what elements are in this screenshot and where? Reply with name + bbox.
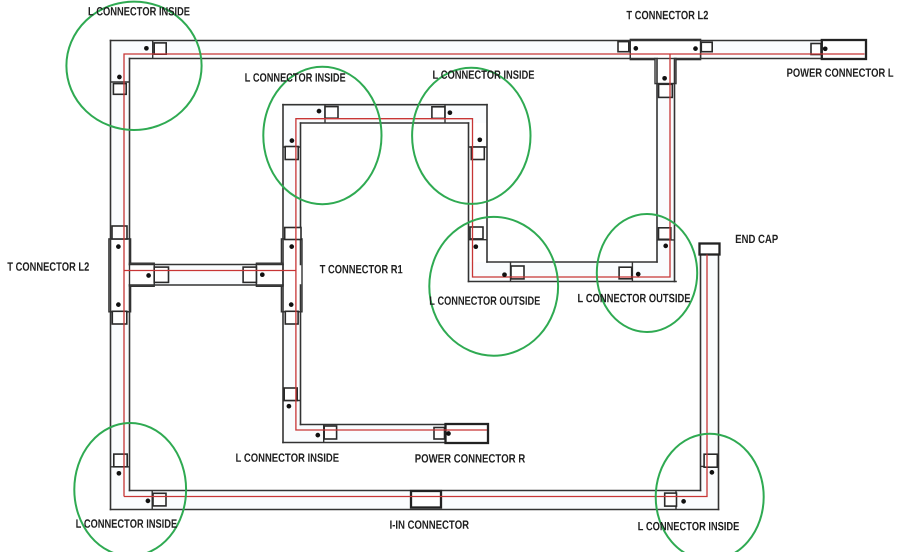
I-IN connector box — [411, 491, 441, 508]
label L CONNECTOR INSIDE inner top-left — [245, 73, 345, 82]
power connector L box — [822, 40, 866, 59]
L connector inside C1 joints — [152, 41, 154, 59]
wire bottom track outer rail — [111, 509, 719, 511]
L connector inside C3 joints — [444, 105, 446, 123]
red circuit lines — [124, 54, 865, 497]
label END CAP — [736, 235, 778, 244]
clip C5 horizontal arm — [619, 267, 632, 279]
clip C2 left arm — [285, 147, 298, 160]
dot C8a — [710, 470, 715, 475]
L connector inside C2 joints — [324, 105, 326, 123]
node circle F bottom-left — [74, 423, 186, 552]
wire rung bottom rail — [130, 284, 284, 286]
dot C6b — [315, 433, 320, 438]
label L CONNECTOR INSIDE top-left — [89, 7, 190, 16]
clip T-left bottom — [112, 311, 127, 324]
dot C8b — [681, 499, 686, 504]
label T CONNECTOR R1 — [320, 265, 403, 274]
wire T stem east rail — [674, 59, 676, 282]
clip power connector R — [434, 428, 445, 440]
clip power connector L — [811, 44, 821, 55]
clip T-top stem — [659, 84, 673, 97]
wire inner-left vertical west rail — [282, 105, 284, 443]
T connector right joints — [283, 238, 301, 240]
dot C1b — [117, 75, 122, 80]
label T CONNECTOR L2 left — [7, 262, 89, 271]
track interior tint — [111, 41, 867, 510]
dot C1a — [144, 46, 149, 51]
dot T-left c — [146, 273, 151, 278]
thick boxes — [411, 40, 866, 508]
wire end-cap track east rail — [718, 255, 720, 510]
wire inner-bottom track top rail — [301, 424, 446, 426]
clip C7 horizontal arm — [153, 493, 166, 506]
node circle B inner top-left — [263, 67, 381, 204]
L connector outside C5 joints — [657, 239, 675, 241]
T connector L2 left body — [109, 239, 131, 312]
dot C2a — [317, 109, 322, 114]
dot T-top w — [633, 46, 638, 51]
dot T-top e — [693, 46, 698, 51]
wire inner-bottom track bottom rail — [283, 442, 446, 444]
wire red top+right run — [124, 54, 865, 497]
L connector outside C4 joints — [469, 239, 488, 241]
wire red bottom run — [124, 255, 707, 497]
label I-IN CONNECTOR — [390, 520, 469, 529]
clip T-right top — [285, 228, 301, 240]
wire end-cap track west rail — [700, 255, 702, 491]
clip C6 horizontal arm — [324, 426, 336, 439]
wire stem-horizontal top rail — [487, 261, 657, 263]
label L CONNECTOR INSIDE bottom-right — [638, 522, 739, 531]
node circle G bottom-right — [656, 434, 764, 552]
power connector R box — [446, 424, 489, 443]
wire top track outer rail — [111, 40, 822, 42]
clip C2 top arm — [325, 107, 338, 119]
T connector bodies — [109, 39, 701, 311]
wire left track outer rail — [110, 41, 112, 510]
green highlight circles — [66, 2, 763, 552]
clip T-left top — [112, 226, 127, 239]
label L CONNECTOR INSIDE inner top-right — [433, 70, 534, 79]
dot C3a — [448, 110, 453, 115]
dot C5a — [663, 244, 668, 249]
wire inner-top track bottom rail — [301, 122, 469, 124]
T connector L2 top body — [630, 39, 700, 59]
clip T-top west — [618, 42, 629, 52]
T connector left joints — [111, 238, 130, 240]
wire left track inner rail (gap at rung) — [129, 59, 131, 265]
wire red rung — [124, 270, 296, 272]
L connector inside C6 joints — [283, 400, 301, 402]
dot T-left b — [116, 302, 121, 307]
dot T-right a — [289, 244, 294, 249]
clip T-right branch — [243, 267, 256, 282]
clip C3 right arm — [471, 147, 484, 160]
dot T-right b — [289, 302, 294, 307]
T connector R1 body — [281, 239, 302, 312]
label L CONNECTOR INSIDE inner bottom — [236, 453, 339, 462]
clip C4 vertical arm — [470, 227, 483, 239]
clips — [112, 42, 821, 507]
wire stem-horizontal bottom rail — [469, 281, 677, 283]
wire inner-left vertical east rail (gap at rung) — [300, 123, 302, 265]
dot C3b — [477, 137, 482, 142]
dot power L — [823, 46, 828, 51]
wire bottom track inner rail — [130, 490, 701, 492]
clip C1 left arm — [113, 84, 126, 95]
node circle E right outside corner — [597, 214, 697, 332]
dot T-top s — [662, 76, 667, 81]
wire rung top rail — [130, 264, 284, 266]
label L CONNECTOR INSIDE bottom-left — [76, 519, 177, 528]
clip T-left branch — [154, 267, 168, 282]
label T CONNECTOR L2 top — [627, 11, 709, 19]
clip C7 vertical arm — [114, 454, 127, 467]
clip C5 vertical arm — [659, 228, 671, 240]
label L CONNECTOR OUTSIDE right — [578, 294, 690, 303]
L connector inside C7 joints — [111, 466, 130, 468]
dot C7b — [146, 499, 151, 504]
clip T-right bottom — [285, 311, 298, 324]
wire inner-right vertical west rail — [468, 123, 470, 282]
node circle C inner top-right — [412, 68, 530, 204]
wire T stem west rail — [656, 59, 658, 263]
label L CONNECTOR OUTSIDE left — [430, 296, 540, 305]
L connector inside C8 joints — [701, 465, 719, 467]
dot C2b — [290, 138, 295, 143]
clip C6 vertical arm — [284, 388, 297, 401]
wire inner-right vertical east rail — [486, 105, 488, 262]
label POWER CONNECTOR L — [787, 68, 893, 77]
label POWER CONNECTOR R — [415, 454, 525, 463]
clip C1 top arm — [154, 43, 166, 54]
clip C4 horizontal arm — [511, 266, 524, 279]
rails — [111, 41, 822, 510]
dot T-right c — [260, 272, 265, 277]
dot C4a — [473, 244, 478, 249]
dot power R — [446, 431, 451, 436]
clip T-top east — [701, 42, 712, 51]
node circle D left outside corner — [429, 217, 558, 356]
T connector top joints — [629, 41, 631, 59]
dot T-left a — [116, 244, 121, 249]
wire inner-top track top rail — [283, 104, 487, 106]
dot C7a — [117, 471, 122, 476]
dot C5b — [636, 272, 641, 277]
wire top track inner rail (gap at T stem) — [130, 58, 656, 60]
dot C4b — [502, 272, 507, 277]
clip C3 top arm — [432, 107, 445, 119]
node circle A top-left — [66, 2, 201, 130]
end cap box — [700, 244, 720, 255]
clip C8 vertical arm — [704, 454, 717, 467]
dot C6a — [287, 404, 292, 409]
clip C8 horizontal arm — [665, 493, 677, 506]
wire red T stem — [296, 54, 670, 430]
joints — [111, 41, 719, 510]
